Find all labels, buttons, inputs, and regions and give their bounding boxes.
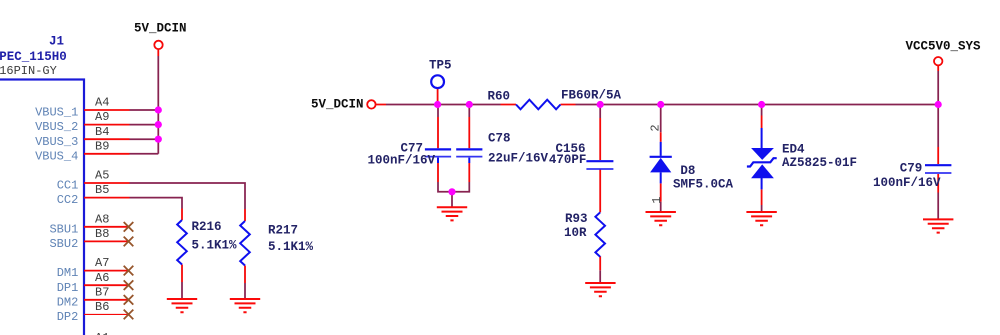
svg-text:VBUS_3: VBUS_3 [35, 135, 78, 149]
svg-text:A5: A5 [95, 169, 109, 183]
svg-text:CC2: CC2 [57, 193, 79, 207]
svg-text:DP1: DP1 [57, 281, 79, 295]
svg-text:DM1: DM1 [57, 266, 79, 280]
svg-text:R217: R217 [268, 224, 298, 238]
svg-text:CC1: CC1 [57, 179, 79, 193]
svg-text:A8: A8 [95, 212, 109, 226]
svg-text:470PF: 470PF [549, 153, 587, 167]
svg-text:VBUS_2: VBUS_2 [35, 120, 78, 134]
svg-text:10R: 10R [564, 226, 587, 240]
svg-text:5.1K1%: 5.1K1% [268, 240, 314, 254]
svg-text:5V_DCIN: 5V_DCIN [134, 21, 187, 35]
svg-text:B7: B7 [95, 285, 109, 299]
svg-text:DM2: DM2 [57, 295, 79, 309]
svg-text:VBUS_1: VBUS_1 [35, 106, 78, 120]
svg-text:TYPEC_115H0: TYPEC_115H0 [0, 50, 67, 64]
svg-text:B5: B5 [95, 183, 109, 197]
svg-text:DP2: DP2 [57, 310, 79, 324]
svg-text:A4: A4 [95, 96, 109, 110]
svg-text:A1: A1 [95, 331, 109, 335]
svg-text:SBU2: SBU2 [49, 237, 78, 251]
svg-text:SBU1: SBU1 [49, 222, 78, 236]
svg-text:A7: A7 [95, 256, 109, 270]
svg-text:B8: B8 [95, 227, 109, 241]
svg-text:J1: J1 [49, 35, 64, 49]
svg-text:B4: B4 [95, 125, 109, 139]
svg-text:AZ5825-01F: AZ5825-01F [782, 156, 857, 170]
svg-text:FB60R/5A: FB60R/5A [561, 89, 622, 103]
svg-text:2: 2 [649, 124, 663, 131]
svg-text:5.1K1%: 5.1K1% [192, 239, 238, 253]
svg-text:22uF/16V: 22uF/16V [488, 152, 549, 166]
svg-text:SMF5.0CA: SMF5.0CA [673, 178, 734, 192]
svg-text:C79: C79 [900, 161, 923, 175]
svg-text:VBUS_4: VBUS_4 [35, 149, 78, 163]
svg-text:A9: A9 [95, 110, 109, 124]
svg-text:B6: B6 [95, 300, 109, 314]
svg-text:R93: R93 [565, 212, 588, 226]
svg-text:1: 1 [650, 197, 664, 204]
svg-text:5V_DCIN: 5V_DCIN [311, 98, 364, 112]
svg-text:ED4: ED4 [782, 143, 805, 157]
svg-text:16PIN-GY: 16PIN-GY [0, 64, 57, 78]
svg-text:R60: R60 [488, 90, 511, 104]
svg-text:A6: A6 [95, 271, 109, 285]
svg-text:C78: C78 [488, 132, 511, 146]
svg-text:100nF/16V: 100nF/16V [873, 176, 941, 190]
svg-text:B9: B9 [95, 139, 109, 153]
svg-text:D8: D8 [680, 164, 695, 178]
svg-text:100nF/16V: 100nF/16V [367, 153, 435, 167]
svg-text:VCC5V0_SYS: VCC5V0_SYS [906, 39, 982, 53]
svg-text:TP5: TP5 [429, 59, 452, 73]
svg-text:R216: R216 [192, 220, 222, 234]
